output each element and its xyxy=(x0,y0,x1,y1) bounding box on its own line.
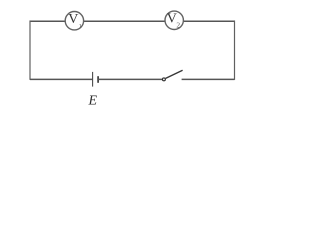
wire bottom-middle segment xyxy=(98,78,162,80)
wire bottom-left segment xyxy=(30,78,92,80)
voltmeter V2 body xyxy=(165,11,183,29)
switch S pivot dot xyxy=(162,78,165,81)
wire top-right segment xyxy=(183,20,234,22)
wire bottom-right segment xyxy=(182,78,235,80)
svg-text:E: E xyxy=(88,94,98,109)
wire left vertical xyxy=(29,20,31,79)
svg-text:V: V xyxy=(68,12,78,27)
svg-text:1: 1 xyxy=(79,23,82,30)
wire top-middle segment xyxy=(84,20,166,22)
switch S arm xyxy=(166,70,183,78)
battery E short plate xyxy=(97,76,99,83)
voltmeter V1 body xyxy=(65,12,83,30)
wire top-left segment xyxy=(30,20,65,22)
wire right vertical xyxy=(234,20,236,79)
svg-text:2: 2 xyxy=(176,21,180,30)
battery E long plate xyxy=(92,72,94,87)
